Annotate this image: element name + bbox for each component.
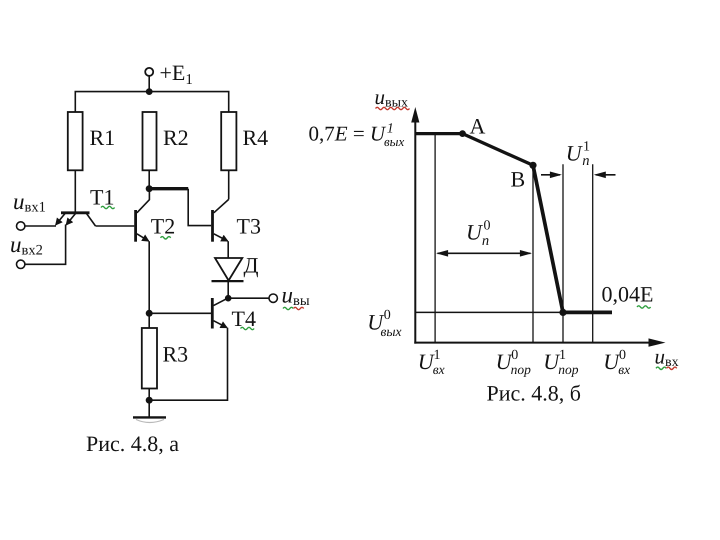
wire emitter1 to input 1 [25, 225, 56, 227]
transistor T1 emitter 2 [66, 214, 75, 225]
squiggle under T4 [241, 327, 255, 329]
node output [225, 295, 232, 302]
squiggle under E of 0,04E [637, 306, 651, 308]
resistor R1 [68, 112, 83, 170]
terminal u_vx2 [17, 260, 25, 268]
svg-text:uвх1: uвх1 [13, 189, 46, 216]
wire thick bus node to T3 base [149, 187, 188, 190]
svg-text:1: 1 [434, 348, 441, 363]
wire T2 emitter node to T4 base [149, 312, 211, 314]
transistor T1 base bar [61, 211, 90, 214]
svg-text:R1: R1 [90, 125, 116, 150]
curve bottom segment [563, 311, 612, 315]
transistor T4 collector [214, 299, 227, 306]
svg-text:вх: вх [618, 362, 630, 377]
transistor T3 collector [214, 199, 229, 212]
svg-text:A: A [470, 114, 486, 139]
wire T3 emitter to diode [227, 241, 229, 258]
point A [459, 130, 466, 137]
svg-text:0: 0 [384, 308, 391, 323]
svg-text:+E1: +E1 [160, 60, 193, 88]
guide line U0por [532, 165, 534, 342]
svg-text:0: 0 [484, 219, 491, 234]
guide line U0vx [592, 164, 594, 342]
svg-text:пор: пор [511, 362, 531, 377]
level line U0vyh [415, 311, 563, 313]
node R2/T2 collector [146, 185, 153, 192]
wire +E1 to rail [148, 76, 150, 92]
dimension arrow U1p right [596, 174, 616, 176]
wire T1 collector to T2 base [96, 225, 135, 227]
svg-text:вх: вх [433, 362, 445, 377]
svg-text:R2: R2 [163, 125, 189, 150]
transistor T2 emitter [137, 234, 149, 241]
svg-text:0,04Е: 0,04Е [602, 282, 654, 307]
x axis [414, 342, 651, 344]
svg-text:вых: вых [384, 134, 404, 149]
svg-text:Рис. 4.8, б: Рис. 4.8, б [487, 381, 581, 406]
curve top segment [415, 132, 462, 135]
dimension arrow U1p left [541, 174, 560, 176]
wire output node to terminal [228, 297, 269, 299]
wire R4 bottom to T3 collector [228, 170, 230, 199]
svg-text:0: 0 [619, 348, 626, 363]
svg-text:R4: R4 [243, 125, 269, 150]
squiggle under u_out [283, 307, 293, 309]
squiggle under T1 [101, 206, 115, 208]
transistor T3 base bar [211, 210, 214, 242]
point C [559, 309, 566, 316]
squiggle under u_vyh [376, 107, 410, 109]
svg-text:T3: T3 [237, 214, 261, 239]
node supply junction [146, 88, 153, 95]
transistor T4 emitter [214, 321, 227, 328]
svg-text:вых: вых [381, 324, 402, 339]
svg-text:uвх2: uвх2 [10, 232, 43, 259]
transistor T1 collector [87, 214, 96, 227]
transistor T1 emitter 1 [56, 214, 65, 225]
transistor T4 base bar [211, 298, 214, 329]
transistor T2 collector [137, 189, 150, 213]
diode D [215, 258, 242, 281]
svg-text:п: п [482, 233, 489, 249]
transistor T3 emitter [214, 234, 228, 241]
svg-text:R3: R3 [163, 342, 189, 367]
wire R2 bottom to node [148, 170, 150, 188]
squiggle under u_vx [656, 367, 666, 369]
squiggle under T2 [161, 237, 171, 239]
wire diode cathode to output node [227, 281, 229, 298]
svg-text:0: 0 [511, 348, 518, 363]
ground [133, 416, 166, 418]
svg-text:0,7E = U: 0,7E = U [309, 122, 387, 146]
svg-text:uвх: uвх [655, 345, 679, 371]
svg-text:T2: T2 [151, 214, 175, 239]
node ground junction [146, 397, 153, 404]
svg-text:uвы: uвы [282, 283, 310, 310]
svg-text:Д: Д [244, 252, 259, 277]
curve steep segment B-C [533, 165, 563, 312]
resistor R2 [143, 112, 157, 170]
wire T2 emitter down to node [148, 241, 150, 313]
guide line U1por [562, 164, 564, 342]
node T4 base / R3 top [146, 310, 153, 317]
svg-text:п: п [582, 153, 589, 169]
svg-text:B: B [511, 167, 526, 192]
resistor R3 [148, 313, 150, 328]
svg-text:1: 1 [559, 348, 566, 363]
wire top supply rail [75, 92, 228, 112]
y axis [414, 120, 416, 344]
terminal +E1 [145, 68, 153, 76]
terminal u_vx1 [17, 222, 25, 230]
svg-text:пор: пор [558, 362, 579, 377]
svg-text:Рис. 4.8, а: Рис. 4.8, а [86, 431, 179, 456]
transistor T2 base bar [134, 210, 137, 242]
wire R1 bottom to T1 base [74, 170, 76, 212]
wire T4 emitter down and left to ground node [149, 328, 227, 400]
resistor R4 [221, 112, 236, 170]
curve segment A-B [463, 134, 534, 166]
dimension arrow U0p [438, 252, 531, 254]
wire R3 bottom to ground [148, 389, 150, 418]
point B [529, 162, 536, 169]
wire emitter2 down and to input 2 [25, 225, 66, 265]
svg-text:U: U [566, 140, 584, 165]
guide line U1vx [434, 134, 436, 343]
terminal u_out [269, 294, 277, 302]
